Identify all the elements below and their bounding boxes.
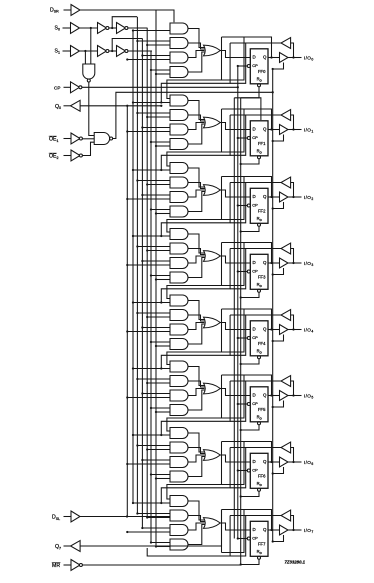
wire A03 to OR — [188, 51, 204, 58]
svg-text:D: D — [253, 393, 256, 398]
wire pin 4 data line — [230, 314, 281, 316]
wire output enable vertical — [272, 69, 274, 542]
wire A23 to OR — [188, 190, 204, 197]
wire bus line 1 — [126, 106, 128, 517]
wire A01 to OR — [188, 29, 205, 48]
wire A24 input top — [151, 209, 170, 211]
wire A13 input bottom — [127, 131, 170, 133]
wire pin 7 data line — [230, 515, 281, 517]
NAND output bubble — [110, 137, 113, 140]
wire to IO pad 0 — [288, 57, 302, 59]
wire A54 input bottom — [156, 411, 170, 413]
wire to IO pad 3 — [288, 262, 302, 264]
wire A14 input bottom — [156, 145, 170, 147]
FF2 RD bubble — [258, 223, 261, 226]
wire enable to buffer 4 — [273, 335, 284, 342]
svg-text:DSL: DSL — [52, 515, 60, 521]
wire S0bar loop to bus — [112, 17, 137, 28]
svg-text:S0: S0 — [55, 26, 60, 32]
tri-state buffer output 0 — [280, 53, 289, 63]
and gate A43 hold — [170, 324, 188, 335]
wire pin 6 loop beside FF — [230, 448, 246, 488]
wire OE2 to NAND — [82, 142, 94, 155]
wire A03 input top — [142, 55, 170, 57]
wire A14 input top — [151, 141, 170, 143]
and gate A52 parallel load — [170, 376, 188, 387]
wire OR to FF3 D input — [220, 256, 250, 263]
wire A32 input top — [137, 246, 170, 248]
wire FF4 Q to output buffer — [268, 329, 280, 331]
wire A53 input bottom — [127, 397, 170, 399]
wire Q2 loop beside FF — [222, 177, 245, 220]
svg-text:I/O2: I/O2 — [304, 195, 314, 201]
wire A41 to OR — [188, 301, 205, 320]
wire A62 to OR — [188, 448, 205, 454]
wire A64 to OR — [188, 457, 205, 477]
and gate A33 hold — [170, 258, 188, 269]
wire FF2 Q to output buffer — [268, 196, 280, 198]
wire Q1 loop beside FF — [222, 109, 245, 152]
wire CP to FF4 — [238, 337, 248, 339]
wire FF5 Q to output buffer — [268, 395, 280, 397]
svg-text:Q7: Q7 — [55, 544, 61, 550]
and gate A31 shift right — [170, 229, 188, 240]
wire to IO pad 6 — [288, 461, 302, 463]
wire OE1 to NAND — [82, 138, 94, 140]
svg-text:Q: Q — [263, 393, 267, 398]
wire Q5 loop beside FF — [222, 375, 245, 418]
wire CP to FF0 — [238, 65, 248, 67]
and gate A73 hold — [170, 525, 188, 536]
wire CP to FF5 — [238, 403, 248, 405]
flip-flop FF0 — [250, 49, 268, 84]
wire A72 to OR — [188, 516, 205, 522]
wire DSL to buffer — [64, 516, 72, 518]
wire OR to FF7 D input — [220, 523, 250, 530]
wire A74 to OR — [188, 525, 205, 545]
flip-flop FF5 — [250, 387, 268, 422]
wire to IO pad 2 — [288, 196, 302, 198]
svg-text:CP: CP — [54, 86, 60, 91]
wire bus line 3 — [136, 17, 138, 513]
wire A41 mode input — [133, 302, 170, 304]
and gate A11 shift right — [170, 95, 188, 106]
wire CP to FF2 — [238, 205, 248, 207]
wire A52 to OR — [188, 381, 205, 387]
svg-text:OE1: OE1 — [49, 137, 59, 143]
wire CP to FF1 — [238, 137, 248, 139]
wire Q4 loop beside FF — [222, 309, 245, 352]
inverter OE2 — [71, 150, 80, 161]
wire A62 input bottom — [147, 449, 170, 451]
wire A24 input bottom — [156, 213, 170, 215]
wire RD to FF2 — [241, 226, 259, 231]
wire Q3 staircase to A41 shift input — [167, 243, 222, 299]
junction S0bar — [111, 27, 113, 29]
wire A54 to OR — [188, 390, 205, 410]
wire pin 7 loop beside FF — [230, 516, 246, 557]
and gate U1 S0 S1 mode decode — [83, 64, 95, 79]
wire pin 2 staircase to A31 input — [161, 183, 230, 237]
wire Q7 loop beside FF — [222, 510, 245, 553]
wire master reset line — [82, 564, 240, 566]
FF3 RD bubble — [258, 289, 261, 292]
wire S1 buffered — [79, 50, 98, 52]
svg-text:I/O5: I/O5 — [304, 393, 314, 399]
wire CP line to bus — [82, 86, 238, 88]
svg-text:Q: Q — [263, 459, 267, 464]
tri-state buffer output 3 — [280, 258, 289, 268]
wire A02 input top — [137, 40, 170, 42]
wire A53 to OR — [188, 389, 204, 396]
wire bus line 2 — [132, 31, 134, 504]
wire IO pin 7 to input buffer — [291, 516, 294, 531]
input buffer 1 — [281, 110, 291, 121]
or gate O2 — [204, 185, 221, 196]
wire pin 4 loop beside FF — [230, 315, 246, 355]
wire S0 buffered — [79, 27, 98, 29]
FF5 RD bubble — [258, 422, 261, 425]
wire CP to inverter — [64, 86, 71, 88]
and gate A23 hold — [170, 192, 188, 203]
svg-text:I/O1: I/O1 — [304, 127, 314, 133]
wire A34 input bottom — [156, 279, 170, 281]
wire A12 to OR — [188, 115, 205, 121]
wire A73 input top — [142, 527, 170, 529]
and gate A74 shift left — [170, 539, 188, 550]
svg-text:CP: CP — [252, 535, 258, 540]
wire A73 input bottom — [127, 531, 170, 533]
wire A22 input bottom — [147, 184, 170, 186]
wire A34 to OR — [188, 258, 205, 278]
wire pin 0 loop beside FF — [230, 43, 246, 83]
svg-text:RD: RD — [257, 282, 263, 288]
svg-text:I/O6: I/O6 — [304, 460, 314, 466]
wire A43 input top — [142, 327, 170, 329]
junction DSL bus — [126, 515, 128, 517]
wire RD to FF5 — [241, 425, 259, 430]
wire A33 to OR — [188, 256, 204, 263]
wire A52 input bottom — [147, 382, 170, 384]
svg-text:D: D — [253, 194, 256, 199]
svg-text:FF1: FF1 — [258, 141, 266, 146]
and gate A64 shift left — [170, 471, 188, 482]
input buffer 7 — [281, 510, 291, 521]
wire pin 1 data line — [230, 114, 281, 116]
wire S0 doubled to bus — [128, 27, 148, 29]
wire A04 input bottom — [156, 73, 170, 75]
wire A62 input top — [137, 445, 170, 447]
inverter CP bubble — [79, 86, 82, 89]
wire S1 doubled to bus — [128, 50, 152, 52]
mode AND output bubble — [87, 79, 90, 82]
junction CP — [237, 86, 239, 88]
wire Q6 loop beside FF — [222, 442, 245, 485]
wire enable to buffer 0 — [273, 63, 284, 70]
and gate A72 parallel load — [170, 510, 188, 521]
wire DSL to cell7 — [80, 516, 171, 518]
buffer Q7 output — [71, 541, 81, 552]
buffer DSL — [71, 511, 80, 522]
wire CP to FF6 — [238, 470, 248, 472]
wire FF1 Q to output buffer — [268, 129, 280, 131]
wire pin 5 loop beside FF — [230, 381, 246, 421]
wire pin 7 return — [147, 516, 230, 557]
inverter MR bubble — [79, 564, 82, 567]
or gate O6 — [204, 450, 221, 461]
FF2 CP bubble — [247, 204, 250, 207]
svg-text:I/O3: I/O3 — [304, 261, 314, 267]
wire OR to FF0 D input — [220, 51, 250, 58]
input buffer 6 — [281, 442, 291, 453]
svg-text:CP: CP — [252, 63, 258, 68]
svg-text:D: D — [253, 527, 256, 532]
input buffer 4 — [281, 310, 291, 321]
flip-flop FF6 — [250, 453, 268, 488]
wire S1 into mode AND — [84, 51, 86, 64]
wire A21 to OR — [188, 168, 205, 187]
tri-state buffer output 5 — [280, 391, 289, 401]
wire A24 to OR — [188, 192, 205, 212]
svg-text:FF5: FF5 — [258, 407, 266, 412]
svg-text:RD: RD — [257, 414, 263, 420]
wire OR to FF1 D input — [220, 123, 250, 130]
svg-text:D: D — [253, 55, 256, 60]
junction S0 to AND — [90, 27, 92, 29]
input buffer 5 — [281, 376, 291, 387]
svg-text:CP: CP — [252, 202, 258, 207]
wire IO pin 6 to input buffer — [291, 448, 294, 463]
svg-text:Q: Q — [263, 260, 267, 265]
wire pin 3 staircase to A41 input — [161, 249, 230, 303]
junction S1 to AND — [84, 50, 86, 52]
wire A22 to OR — [188, 183, 205, 189]
or gate O0 — [204, 45, 221, 56]
tri-state buffer output 7 — [280, 525, 289, 535]
wire Q0 from FF0 Q — [80, 105, 161, 107]
junction S1bar — [111, 50, 113, 52]
inverter S0 first bubble — [106, 27, 109, 30]
wire A03 input bottom — [127, 59, 170, 61]
wire enable to buffer 5 — [273, 401, 284, 408]
wire RD to FF0 — [241, 87, 259, 98]
wire pin 6 data line — [230, 447, 281, 449]
junction output enable — [272, 91, 274, 93]
wire A31 to OR — [188, 234, 205, 253]
wire Q5 staircase to A61 shift input — [167, 375, 222, 431]
svg-text:7Z33280.1: 7Z33280.1 — [285, 559, 306, 564]
wire pin 6 staircase to A71 input — [161, 448, 230, 504]
or gate O1 — [204, 117, 221, 128]
FF7 RD bubble — [258, 556, 261, 559]
svg-text:FF7: FF7 — [258, 542, 266, 547]
and gate A34 shift left — [170, 272, 188, 283]
and gate A44 shift left — [170, 339, 188, 350]
svg-text:I/O4: I/O4 — [304, 327, 314, 333]
flip-flop FF4 — [250, 321, 268, 356]
wire to IO pad 4 — [288, 329, 302, 331]
wire Q4 feedback top — [222, 309, 272, 330]
wire pin 4 staircase to A51 input — [161, 315, 230, 369]
svg-text:D: D — [253, 127, 256, 132]
wire Q6 staircase to A71 shift input — [167, 442, 222, 500]
wire S1bar loop to bus — [112, 39, 142, 52]
wire RD to FF4 — [241, 359, 259, 364]
and gate A63 hold — [170, 457, 188, 468]
svg-text:FF4: FF4 — [258, 341, 266, 346]
wire A44 to OR — [188, 324, 205, 344]
wire A44 input bottom — [156, 345, 170, 347]
and gate A13 hold — [170, 124, 188, 135]
svg-text:I/O7: I/O7 — [304, 528, 314, 534]
wire IO pin 3 to input buffer — [291, 249, 294, 264]
svg-text:Q: Q — [263, 194, 267, 199]
and gate A71 shift right — [170, 496, 188, 507]
wire IO pin 2 to input buffer — [291, 183, 294, 198]
wire RD to FF3 — [241, 292, 259, 297]
wire A02 to OR — [188, 43, 205, 49]
wire A74 input top — [151, 542, 170, 544]
wire pin 1 staircase to A21 input — [161, 115, 230, 170]
svg-text:CP: CP — [252, 135, 258, 140]
svg-text:I/O0: I/O0 — [304, 55, 314, 61]
inverter S1 second bubble — [125, 50, 128, 53]
FF0 CP bubble — [247, 65, 250, 68]
svg-text:Q: Q — [263, 527, 267, 532]
wire Q6 feedback top — [222, 442, 272, 463]
inverter S1 first bubble — [106, 50, 109, 53]
svg-text:RD: RD — [257, 76, 263, 82]
wire FF6 Q to output buffer — [268, 461, 280, 463]
wire bus line 6 — [150, 51, 152, 542]
wire OE1 to inverter — [64, 138, 72, 140]
inverter CP — [71, 82, 80, 93]
svg-text:FF2: FF2 — [258, 209, 266, 214]
wire pin 2 loop beside FF — [230, 183, 246, 223]
input buffer 2 — [281, 177, 291, 188]
wire A12 input bottom — [147, 116, 170, 118]
nand gate U2 output enable — [94, 133, 109, 145]
wire A34 input top — [151, 275, 170, 277]
svg-text:Q0: Q0 — [55, 104, 61, 110]
wire A14 to OR — [188, 124, 205, 144]
wire A53 input top — [142, 393, 170, 395]
wire Q7 corner — [221, 510, 223, 553]
inverter S0 first — [98, 23, 107, 34]
wire OR to FF4 D input — [220, 323, 250, 330]
wire A64 input top — [151, 474, 170, 476]
FF6 RD bubble — [258, 488, 261, 491]
wire Q0 loop beside FF — [222, 37, 245, 80]
svg-text:RD: RD — [257, 348, 263, 354]
wire between S0 inverters — [109, 27, 117, 29]
svg-text:FF0: FF0 — [258, 69, 266, 74]
inverter S0 second — [117, 23, 126, 34]
inverter OE2 bubble — [79, 154, 82, 157]
wire A74 input bottom — [156, 546, 170, 548]
or gate O7 — [204, 518, 221, 529]
wire A72 input top — [137, 513, 170, 515]
input buffer 3 — [281, 243, 291, 254]
and gate A53 hold — [170, 390, 188, 401]
wire to IO pad 5 — [288, 395, 302, 397]
wire A13 to OR — [188, 123, 204, 130]
wire pin 3 data line — [230, 248, 281, 250]
svg-text:FF6: FF6 — [258, 474, 266, 479]
wire bus line 4 — [141, 39, 143, 528]
wire A11 mode input — [133, 102, 170, 104]
svg-text:Q: Q — [263, 327, 267, 332]
input buffer 0 — [281, 38, 291, 49]
wire FF3 Q to output buffer — [268, 262, 280, 264]
tri-state buffer output 2 — [280, 192, 289, 202]
wire OR to FF2 D input — [220, 190, 250, 197]
wire A44 input top — [151, 341, 170, 343]
wire Q2 staircase to A31 shift input — [167, 177, 222, 233]
FF6 CP bubble — [247, 469, 250, 472]
and gate A32 parallel load — [170, 243, 188, 254]
wire enable to buffer 7 — [273, 535, 284, 542]
wire A01 mode input — [133, 30, 170, 32]
svg-text:CP: CP — [252, 401, 258, 406]
wire CP vertical distribution — [237, 66, 239, 539]
or gate O5 — [204, 383, 221, 394]
inverter S1 first — [98, 46, 107, 57]
svg-text:S1: S1 — [55, 49, 60, 55]
wire pin 0 staircase to A11 input — [161, 43, 230, 103]
wire RD to FF7 — [241, 559, 259, 564]
and gate A54 shift left — [170, 405, 188, 416]
wire OR to FF6 D input — [220, 455, 250, 462]
wire A51 to OR — [188, 367, 205, 386]
wire reset vertical distribution — [240, 98, 242, 565]
wire Q1 staircase to A21 shift input — [167, 109, 222, 166]
wire A61 mode input — [133, 434, 170, 436]
wire OR to FF5 D input — [220, 389, 250, 396]
wire Q5 feedback top — [222, 375, 272, 396]
wire A73 to OR — [188, 523, 204, 530]
svg-text:CP: CP — [252, 467, 258, 472]
wire A42 input top — [137, 312, 170, 314]
FF1 CP bubble — [247, 137, 250, 140]
wire MR to inverter — [64, 564, 72, 566]
wire Q3 loop beside FF — [222, 243, 245, 286]
wire pin 5 data line — [230, 380, 281, 382]
wire A42 to OR — [188, 315, 205, 321]
flip-flop FF7 — [250, 521, 268, 556]
wire mode AND to OE NAND — [89, 82, 94, 136]
wire A32 to OR — [188, 249, 205, 255]
inverter OE1 — [71, 133, 80, 144]
and gate A04 shift left — [170, 67, 188, 78]
wire A63 input bottom — [127, 463, 170, 465]
wire pin 1 loop beside FF — [230, 115, 246, 155]
and gate A12 parallel load — [170, 110, 188, 121]
svg-text:RD: RD — [257, 216, 263, 222]
svg-text:D: D — [253, 260, 256, 265]
wire bus line 7 — [155, 10, 157, 547]
tri-state buffer output 6 — [280, 457, 289, 467]
buffer S0 — [71, 23, 80, 34]
wire A43 to OR — [188, 323, 204, 330]
and gate A03 hold — [170, 52, 188, 63]
wire FF7 Q to output buffer — [268, 529, 280, 531]
inverter MR — [71, 560, 80, 571]
svg-text:OE2: OE2 — [49, 154, 59, 160]
wire IO pin 0 to input buffer — [291, 43, 294, 58]
wire OE2 to inverter — [64, 155, 72, 157]
or gate O3 — [204, 251, 221, 262]
